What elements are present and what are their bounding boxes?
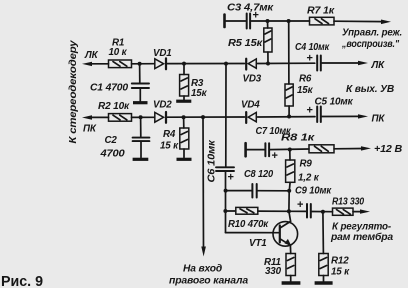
node line1 R3: [182, 62, 186, 66]
plus of C6: [228, 172, 234, 184]
arrow to ПК left out: [82, 115, 92, 119]
svg-text:R5 15к: R5 15к: [228, 38, 263, 49]
svg-text:С9 10мк: С9 10мк: [295, 185, 332, 196]
svg-text:330: 330: [265, 266, 282, 277]
svg-text:К вых. УВ: К вых. УВ: [346, 84, 394, 95]
label C3: [227, 3, 274, 14]
arrow на вход правого канала: [201, 247, 206, 257]
svg-text:Рис. 9: Рис. 9: [1, 273, 43, 288]
svg-text:VT1: VT1: [249, 238, 267, 249]
diode VD4 (cathode left): [246, 112, 256, 123]
transistor VT1: [273, 211, 298, 246]
svg-text:ЛК: ЛК: [84, 50, 99, 61]
label ЛК left: [84, 50, 99, 61]
node base R10: [223, 209, 227, 213]
plus of C5: [307, 105, 313, 117]
wire terminal to C7: [247, 149, 265, 151]
wire collector vertical: [288, 191, 290, 212]
resistor R13 330: [333, 208, 354, 215]
ground of R4: [177, 158, 192, 161]
ground of C2: [133, 158, 149, 161]
resistor R3 15к with wires and ground: [180, 64, 189, 100]
resistor R6 15к: [285, 84, 293, 117]
node R9 top: [288, 148, 292, 152]
diode VD3 (cathode left): [246, 59, 256, 70]
label к регуляторам тембра: [330, 221, 394, 243]
wire C8 right: [258, 190, 290, 192]
arrow ПК out: [358, 114, 368, 118]
wire C9 to R13: [312, 211, 333, 213]
svg-text:15к: 15к: [191, 88, 208, 99]
wire base horizontal: [226, 232, 279, 234]
node R12 top: [321, 210, 325, 214]
plus of C9: [297, 199, 303, 211]
label R6: [297, 74, 314, 96]
label R9: [298, 158, 320, 183]
wire arrow to R2: [89, 116, 109, 118]
capacitor C7 10мк: [265, 143, 269, 156]
wire R7 to output arrow: [334, 20, 383, 22]
svg-text:R7 1к: R7 1к: [307, 6, 335, 17]
label R10: [228, 219, 269, 230]
capacitor C8 120: [252, 184, 256, 198]
wire VD4 to C5: [258, 116, 316, 118]
svg-text:С5 10мк: С5 10мк: [315, 96, 354, 107]
resistor R10 470к: [225, 207, 289, 214]
wire R10 node to C9: [289, 210, 306, 212]
label +12 В: [374, 144, 402, 155]
svg-text:+: +: [297, 199, 303, 211]
arrow к регуляторам тембра: [360, 209, 370, 213]
label ПК left: [83, 124, 97, 135]
node collector C8/R9: [287, 189, 291, 193]
capacitor C3 4,7мк: [247, 14, 250, 29]
wire C3 to R7 (top rail): [251, 20, 309, 22]
label ПК right: [372, 113, 386, 124]
wire C7 to R8: [270, 148, 309, 151]
label C9: [295, 185, 332, 196]
svg-text:VD1: VD1: [153, 48, 172, 59]
caption Рис. 9: [1, 273, 43, 288]
label R1: [109, 37, 128, 58]
wire line2 down to right channel input: [202, 117, 205, 248]
resistor R1 10к: [109, 60, 132, 68]
resistor R7 1к: [310, 17, 335, 25]
arrow ЛК out: [358, 61, 368, 65]
label C2: [99, 135, 125, 160]
node top rail / R5: [266, 19, 270, 23]
diode VD2: [155, 112, 166, 123]
chassis terminal at C3 left: [223, 15, 226, 28]
wire R1 to VD1: [132, 63, 155, 65]
svg-text:С8 120: С8 120: [244, 169, 274, 180]
svg-text:С2: С2: [105, 135, 118, 146]
svg-text:R8 1к: R8 1к: [281, 132, 316, 143]
svg-text:ПК: ПК: [372, 113, 386, 124]
svg-text:VD3: VD3: [243, 74, 262, 85]
label К стереодекодеру rotated: [68, 40, 79, 144]
arrow управление: [381, 20, 391, 25]
capacitor C1 4700 with wires and ground: [132, 64, 149, 101]
capacitor C5 10мк: [317, 107, 321, 123]
svg-text:+12 В: +12 В: [374, 144, 402, 155]
label R13: [332, 197, 365, 208]
wire C4 to ЛК out: [322, 62, 360, 64]
svg-text:+: +: [228, 172, 234, 184]
svg-text:С3 4,7мк: С3 4,7мк: [227, 3, 274, 14]
label R2: [98, 101, 130, 112]
plus sign of C3: [253, 10, 259, 22]
node line2 down branch: [201, 115, 205, 119]
node base C8: [224, 189, 228, 193]
node line2 C2: [139, 115, 143, 119]
wire VD3 to C4 crossing R6 feed: [258, 62, 315, 64]
label R5: [228, 38, 263, 49]
wire C6 to base corner: [225, 172, 227, 233]
wire VD2 to VD4: [167, 116, 244, 118]
svg-text:10 к: 10 к: [109, 47, 128, 58]
label Управл. реж. воспроизв.: [341, 28, 402, 50]
wire R8 to +12V: [334, 148, 363, 150]
arrow to ЛК left out: [82, 62, 92, 66]
resistor R2 10к: [109, 114, 132, 122]
label R4: [160, 129, 179, 152]
ground of R12: [315, 281, 333, 284]
label R3: [191, 78, 208, 99]
wire arrow to R1: [89, 63, 109, 65]
node R6 line2: [287, 115, 291, 119]
svg-text:R4: R4: [163, 129, 176, 140]
wire R2 to VD2: [132, 116, 155, 118]
resistor R12 15к with wires and ground: [319, 212, 328, 282]
wire R6 feed from top rail crossing line1: [288, 21, 290, 84]
wire VD1 to VD3: [167, 63, 244, 65]
capacitor C2 4700 with wires and ground: [133, 117, 150, 157]
resistor R5 15к with wires: [264, 21, 272, 64]
svg-text:Управл. реж.: Управл. реж.: [342, 28, 402, 39]
wire C8 left: [226, 190, 252, 192]
svg-text:VD2: VD2: [153, 99, 172, 110]
svg-text:R6: R6: [299, 74, 312, 85]
label ЛК right: [371, 60, 386, 71]
svg-text:1,2 к: 1,2 к: [298, 172, 320, 183]
resistor R11 330 with wires and ground: [286, 245, 295, 281]
ground of C1: [133, 101, 148, 104]
chassis terminal at C7 left: [244, 143, 247, 156]
node line1 C6 branch: [224, 62, 228, 66]
label на вход правого канала: [169, 264, 249, 287]
wire R13 to tone control: [353, 211, 362, 213]
diode VD1: [155, 58, 166, 69]
svg-text:15 к: 15 к: [160, 140, 179, 151]
label R12: [331, 256, 350, 278]
label VD1: [153, 48, 172, 59]
node line1 C1: [138, 62, 142, 66]
svg-text:R10 470к: R10 470к: [228, 219, 269, 230]
svg-text:R9: R9: [300, 158, 313, 169]
arrow +12V: [361, 146, 371, 150]
label R7: [307, 6, 335, 17]
plus of C7: [272, 150, 278, 162]
label C4: [295, 42, 330, 53]
label C6 rotated: [207, 139, 218, 182]
ground of R3: [176, 100, 191, 103]
emitter arrow of VT1: [285, 239, 292, 246]
svg-text:+: +: [307, 53, 313, 65]
node line2 R4: [182, 115, 186, 119]
svg-text:С4 10мк: С4 10мк: [295, 42, 330, 53]
svg-text:На вход: На вход: [183, 264, 222, 275]
svg-text:VD4: VD4: [241, 100, 260, 111]
label C7: [256, 126, 292, 137]
label C1: [90, 82, 129, 93]
label R11: [264, 257, 282, 277]
capacitor C4 10мк: [317, 56, 321, 71]
label R8: [281, 132, 316, 143]
svg-text:рам тембра: рам тембра: [330, 232, 394, 243]
wire terminal to C3: [226, 20, 246, 22]
svg-text:ЛК: ЛК: [371, 60, 386, 71]
svg-text:R2 10к: R2 10к: [98, 101, 130, 112]
wire line1 down to C6: [225, 64, 227, 167]
wire C5 to ПК out: [322, 115, 361, 117]
svg-text:правого канала: правого канала: [169, 275, 249, 286]
ground of R11: [282, 281, 301, 284]
resistor R4 15к with wires and ground: [180, 117, 189, 157]
capacitor C9 10мк: [307, 204, 311, 218]
label VD4: [241, 100, 260, 111]
svg-text:15к: 15к: [297, 85, 314, 96]
svg-text:R12: R12: [331, 256, 349, 267]
svg-text:ПК: ПК: [83, 124, 97, 135]
node top rail / R6 feed: [287, 19, 291, 23]
svg-text:15 к: 15 к: [331, 267, 350, 278]
svg-text:С6 10мк: С6 10мк: [207, 139, 218, 182]
resistor R8 1к: [309, 145, 334, 153]
svg-text:+: +: [307, 105, 313, 117]
svg-text:К регулято-: К регулято-: [332, 221, 391, 232]
svg-text:R13 330: R13 330: [332, 197, 365, 208]
label VT1: [249, 238, 267, 249]
label C5: [315, 96, 354, 107]
svg-text:„воспроизв.": „воспроизв.": [341, 39, 399, 50]
label C8: [244, 169, 274, 180]
capacitor C6 10мк: [216, 167, 234, 171]
label К вых. УВ: [346, 84, 394, 95]
svg-text:С1 4700: С1 4700: [90, 82, 129, 93]
node line1 R5: [266, 62, 270, 66]
svg-text:К стереодекодеру: К стереодекодеру: [68, 40, 79, 144]
label VD3: [243, 74, 262, 85]
label VD2: [153, 99, 172, 110]
svg-text:4700: 4700: [99, 149, 125, 160]
svg-text:+: +: [272, 150, 278, 162]
resistor R9 1,2к with wires: [286, 150, 295, 191]
node collector R10/C9: [287, 209, 291, 213]
plus of C4: [307, 53, 313, 65]
